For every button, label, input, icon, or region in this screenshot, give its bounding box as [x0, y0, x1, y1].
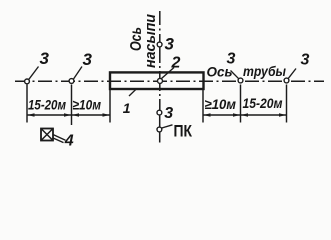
svg-text:15-20м: 15-20м	[28, 97, 67, 113]
svg-text:≥10м: ≥10м	[205, 96, 237, 112]
extension line left A	[26, 85, 28, 123]
arrow left dim 1 left	[28, 113, 35, 117]
leader to label 3 right A	[231, 71, 239, 79]
wire horizontal centerline	[15, 80, 324, 82]
wire vertical axis line	[159, 11, 161, 143]
node circle bottom A	[157, 110, 162, 115]
leader double line to label 4	[53, 135, 66, 143]
leader to label 3 right B	[288, 69, 296, 79]
node circle left B	[69, 79, 74, 84]
dimension line right	[203, 114, 287, 116]
svg-text:1: 1	[123, 100, 131, 116]
svg-text:15-20м: 15-20м	[243, 95, 284, 111]
node circle left A	[25, 79, 30, 84]
arrow left dim 2 right	[103, 113, 110, 117]
arrow right dim 2 left	[241, 113, 248, 117]
svg-text:3: 3	[164, 105, 173, 122]
leader to label 3 left A	[29, 67, 39, 80]
extension line left B	[71, 85, 73, 126]
svg-text:3: 3	[165, 35, 175, 54]
arrow left dim 2 left	[72, 113, 79, 117]
node circle center 2	[158, 78, 163, 83]
svg-text:3: 3	[83, 50, 93, 69]
svg-text:≥10м: ≥10м	[73, 97, 102, 113]
dimension line left	[27, 114, 110, 116]
arrow right dim 1 left	[204, 113, 211, 117]
leader to label 1	[129, 89, 137, 96]
arrow left dim 1 right	[64, 113, 71, 117]
extension line right B	[240, 85, 242, 123]
svg-text:Ось: Ось	[207, 65, 233, 80]
bench mark symbol box	[41, 129, 53, 141]
arrow right dim 2 right	[279, 113, 286, 117]
node circle right A	[238, 78, 243, 83]
arrow right dim 1 right	[233, 113, 240, 117]
svg-text:ПК: ПК	[174, 123, 193, 141]
svg-text:трубы: трубы	[243, 64, 286, 79]
extension line right C	[286, 85, 288, 123]
leader to label 3 left B	[73, 67, 82, 80]
extension line right A	[202, 90, 204, 123]
svg-text:4: 4	[64, 133, 74, 150]
svg-text:2: 2	[171, 55, 181, 72]
leader to label 2	[162, 68, 175, 79]
node circle bottom B	[157, 127, 162, 132]
node circle top	[157, 42, 162, 47]
svg-text:3: 3	[40, 49, 50, 68]
extension line left C	[109, 90, 111, 123]
pipe rectangle 1	[110, 72, 204, 89]
leader to label PK	[162, 125, 173, 128]
node circle right B	[284, 78, 289, 83]
svg-text:насыпи: насыпи	[143, 14, 159, 68]
svg-text:3: 3	[301, 52, 310, 69]
